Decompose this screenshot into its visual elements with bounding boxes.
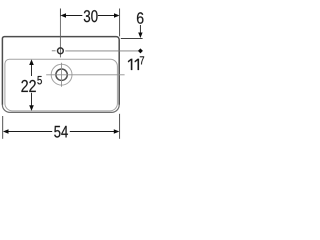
dim 6 label (137, 12, 144, 24)
dim 30 right extension line (119, 9, 121, 37)
dim 30 label (84, 10, 98, 22)
dim 11.7 dot (138, 48, 143, 53)
dim 54 line left segment (8, 131, 52, 133)
washbasin bowl outline (5, 59, 118, 111)
dim 11.7 label (128, 59, 139, 70)
dim 22.5 top arrowhead (29, 59, 34, 65)
dim 22.5 superscript (37, 76, 42, 84)
dim 54 left extension line (2, 116, 4, 139)
tap hole centerline vertical / dim 30 left extension (59, 9, 61, 17)
dim 22.5 upper line segment (31, 64, 33, 76)
dim 54 right extension line (119, 114, 121, 139)
dim 54 left arrowhead (3, 129, 9, 134)
dim 30 right arrowhead (114, 13, 120, 18)
dim 11.7 superscript (140, 56, 144, 64)
dim 54 right arrowhead (114, 129, 120, 134)
dim 22.5 lower line segment (31, 93, 33, 106)
drain inner circle (56, 69, 67, 80)
tap hole centerline horizontal left dash (52, 50, 56, 52)
dim 30 line right segment (98, 15, 115, 17)
dim 6 extension line (121, 38, 143, 40)
dim 54 label (54, 126, 68, 138)
drain outer circle (51, 64, 72, 85)
tap hole centerline horizontal to dot (65, 50, 138, 52)
tap hole (58, 48, 64, 54)
washbasin outer outline bottom (2, 105, 119, 113)
dim 54 line right segment (70, 131, 115, 133)
dim 30 left arrowhead (60, 13, 66, 18)
washbasin outer outline (2, 37, 119, 105)
dim 30 line left segment (65, 15, 83, 17)
dim 6 arrowhead (138, 33, 142, 39)
drain centerline vertical (61, 63, 63, 87)
dim 6 arrow line (139, 25, 141, 33)
dim 22.5 bottom arrowhead (29, 105, 34, 111)
dim 22.5 label (21, 80, 35, 92)
drain centerline horizontal (46, 74, 124, 76)
